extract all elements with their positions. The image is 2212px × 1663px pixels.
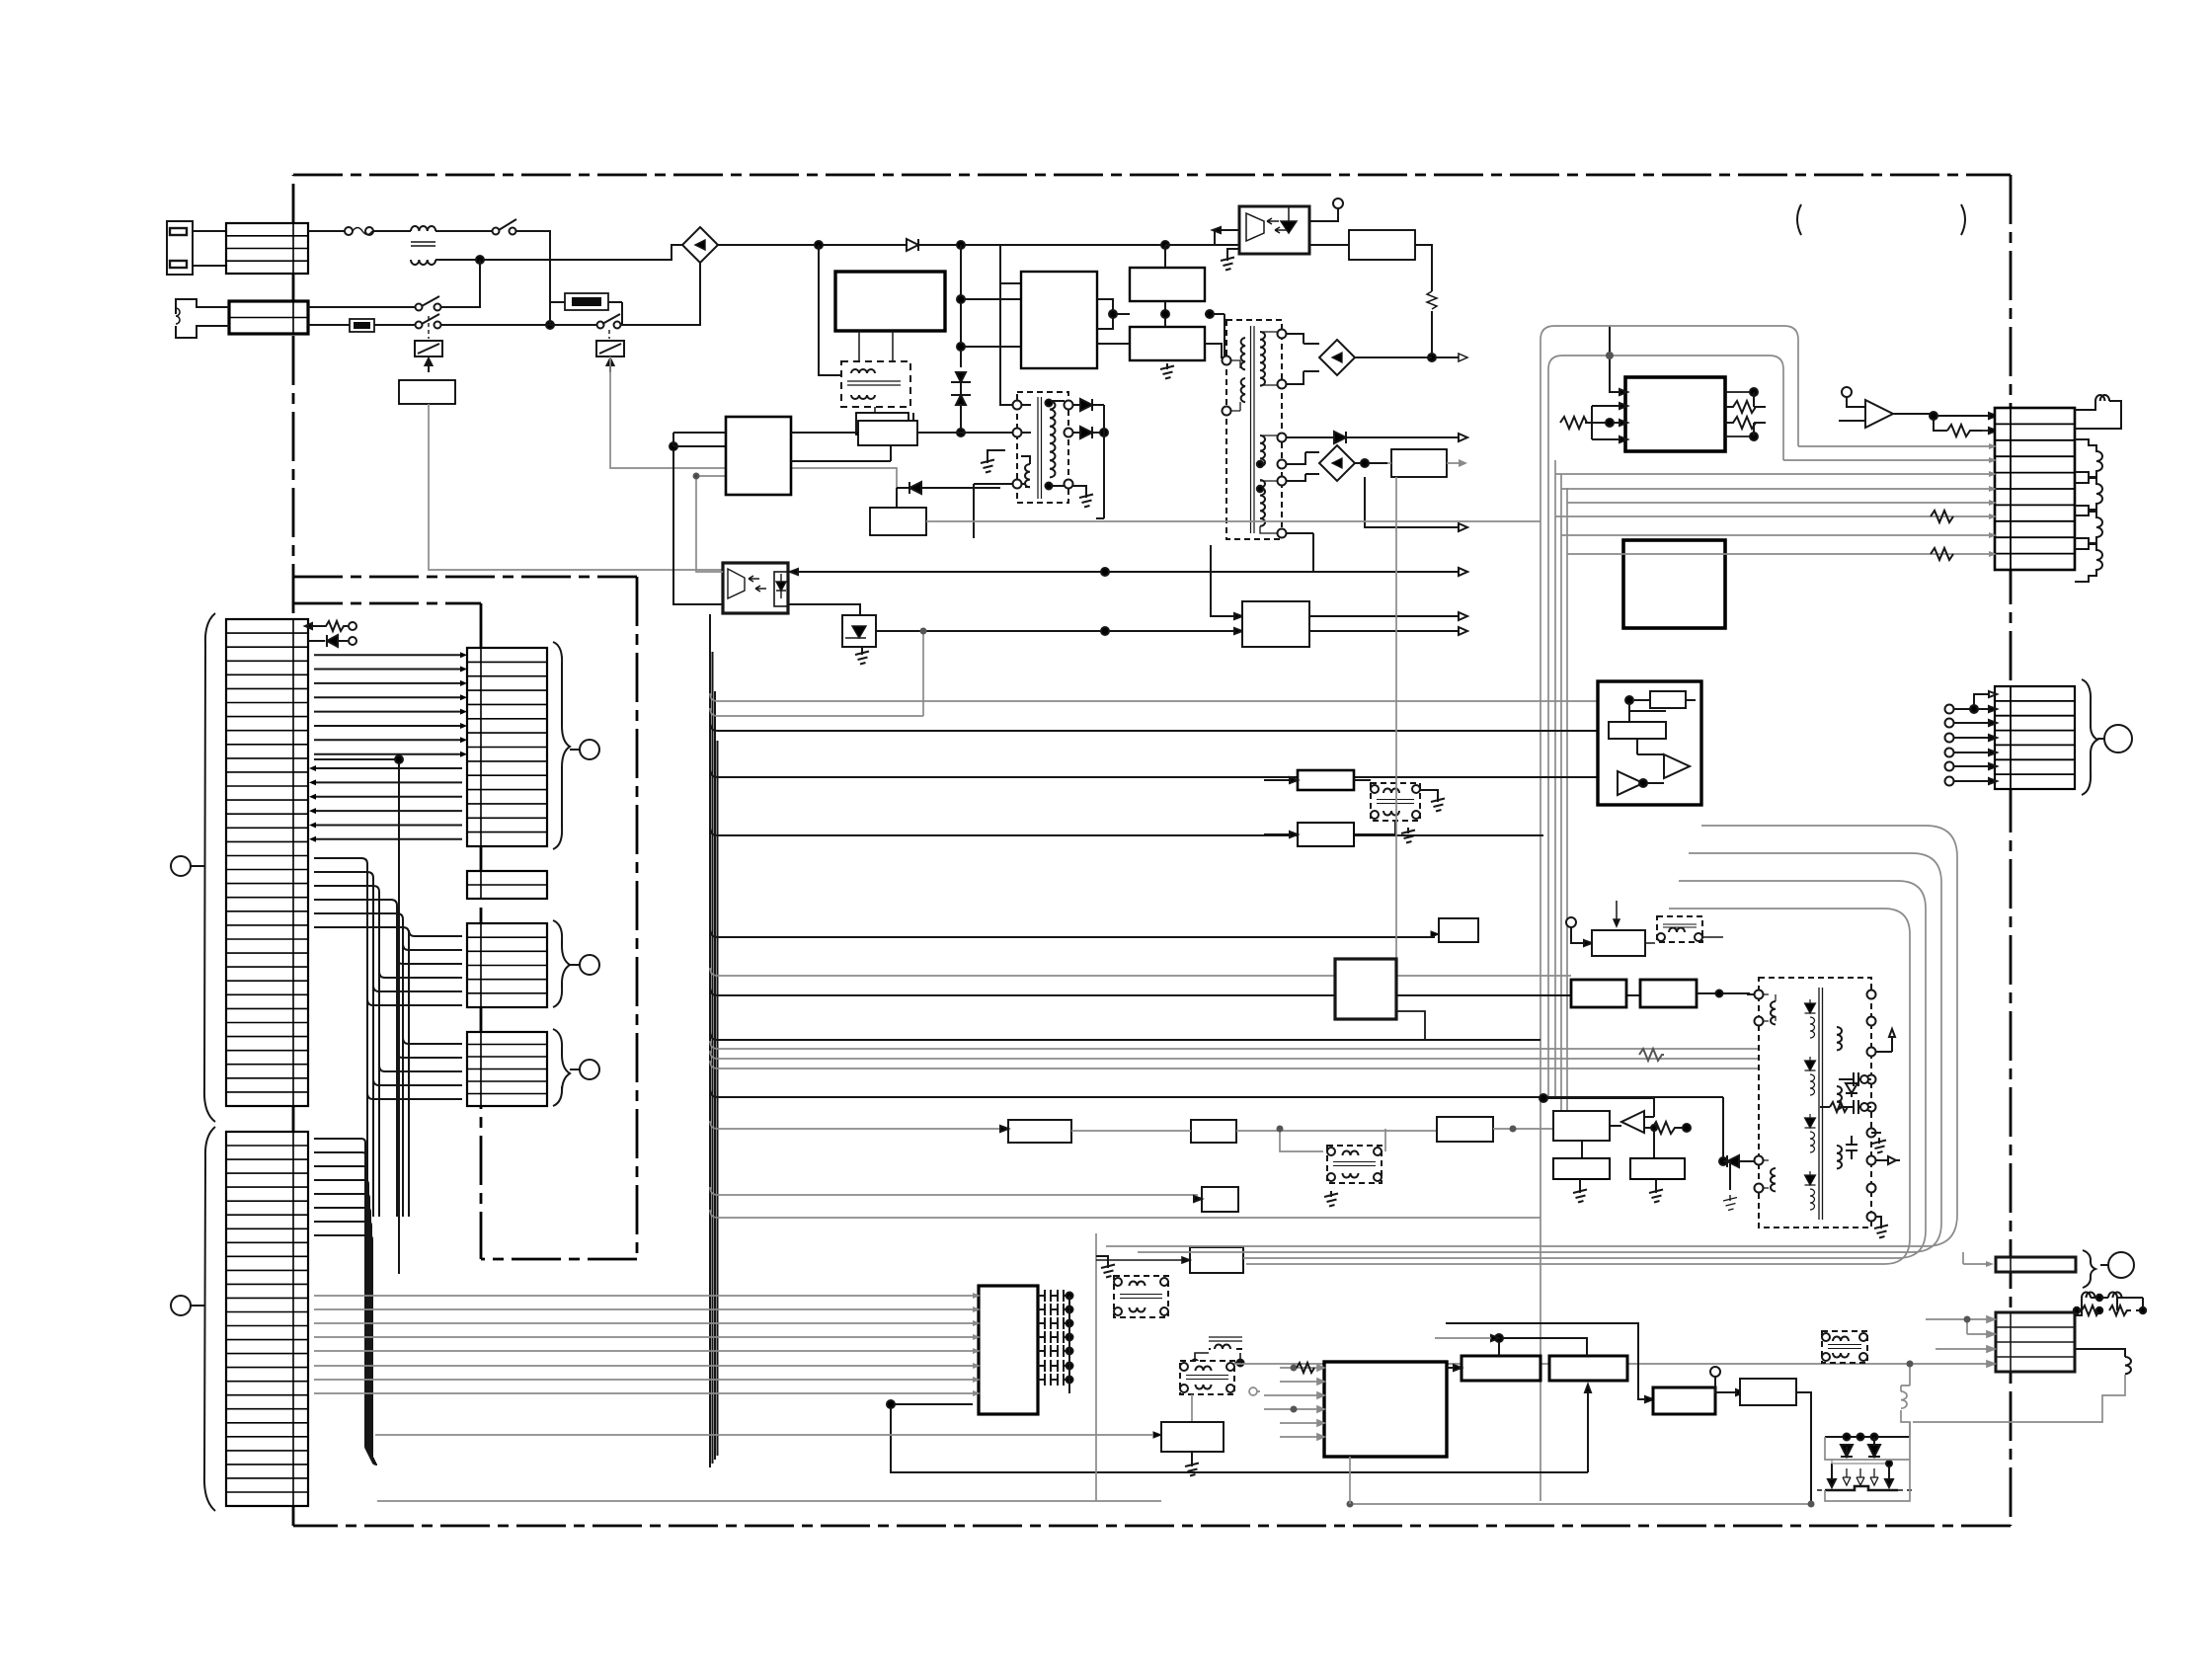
IC PWM controller U10	[835, 272, 945, 331]
wire AC neutral	[476, 245, 684, 329]
connector CN4b	[467, 1032, 547, 1106]
circle term R	[1710, 1367, 1744, 1395]
rect H2	[1640, 980, 1697, 1007]
diode Q1	[1846, 1083, 1857, 1097]
switch SW2a relay contacts	[308, 260, 550, 339]
diode D5	[897, 482, 1000, 508]
switch SW2b	[550, 260, 700, 339]
wire U10 left drop	[819, 245, 1021, 375]
rect on y1210	[1194, 1187, 1238, 1212]
diode D1 rail	[907, 239, 918, 251]
connector CN1 lower left	[226, 1132, 308, 1506]
wires U20 inputs	[1585, 326, 1627, 442]
wires G2 G3	[1264, 777, 1395, 837]
rect comp in	[1553, 1111, 1610, 1141]
wires CN1 to CN2	[314, 655, 462, 839]
wire U2 gray in	[696, 476, 726, 572]
circle ref CN-R1	[2100, 1252, 2134, 1278]
rect N	[1153, 1422, 1224, 1452]
rect out E	[1211, 545, 1309, 647]
transformer EMI box under U10	[841, 331, 918, 425]
rect R	[1740, 1379, 1811, 1504]
arrow out y579	[1313, 545, 1467, 576]
connector CN4a	[467, 923, 547, 1007]
frame sub-board right x645	[636, 577, 639, 1259]
wire y1523	[1347, 1457, 1815, 1508]
arrows T3	[1875, 1029, 1900, 1164]
wires U21 out	[1725, 506, 1817, 602]
switch SW1	[493, 219, 551, 325]
diode D3	[1072, 427, 1108, 438]
circle term U1	[1213, 198, 1343, 246]
IC comparator U30	[1598, 681, 1701, 805]
optocoupler U2	[723, 563, 788, 613]
RIGHT DRIVERS	[1540, 322, 2132, 1501]
chain box K3	[1437, 1117, 1553, 1142]
wire rail to block	[1000, 245, 1280, 283]
rect filter F	[858, 421, 917, 445]
circle ref CN2	[570, 740, 599, 759]
frame main board left border	[292, 175, 295, 1526]
ground EMI B	[1324, 1191, 1338, 1207]
relay driver box	[399, 380, 455, 404]
resistor U60 in	[1297, 1363, 1314, 1373]
trans plain D	[1192, 1337, 1244, 1367]
common mode choke L1	[409, 226, 493, 265]
relay RY2	[596, 341, 624, 372]
bus horizontals gray	[710, 693, 1868, 1218]
connector CN-R1	[1996, 1257, 2076, 1272]
rect relay drive G	[870, 508, 926, 535]
IC motor driver U20	[1625, 377, 1725, 451]
ground TVS	[855, 649, 869, 665]
coil CN-R2 lower	[2075, 1349, 2131, 1437]
frame main board top border	[293, 174, 2011, 177]
wire low tap out	[1287, 467, 1459, 572]
AC INPUT	[308, 198, 1467, 570]
frame main board bottom border	[293, 1525, 2011, 1528]
motor winding W2	[2075, 439, 2102, 483]
reg sub box	[856, 413, 908, 435]
relay RY1	[415, 341, 442, 372]
zener pair	[951, 372, 971, 436]
rect A2a	[1553, 1158, 1610, 1179]
wire U12 pins	[673, 413, 913, 476]
wire relay drive 2	[610, 356, 897, 508]
grounds A2	[1573, 1179, 1663, 1203]
coils CN-R2 right	[2074, 1293, 2146, 1316]
gray feedback bus	[1540, 326, 1798, 1501]
wire U2 out top	[788, 568, 1467, 576]
connector CN top2	[229, 301, 308, 334]
resistor on CN1 pin1	[305, 621, 356, 631]
connector CN2 middle column	[467, 648, 547, 846]
wire relay drive 1	[429, 404, 788, 570]
rect on y949	[1431, 918, 1478, 942]
rect M1	[1592, 901, 1645, 956]
ground T3 a	[1872, 1138, 1886, 1153]
frame inner top y611	[293, 602, 481, 605]
EMI box F	[1822, 1331, 1867, 1363]
wire U2 in	[670, 442, 726, 604]
CENTER BUS	[710, 614, 1868, 1467]
opamp A2	[1540, 1094, 1691, 1158]
rect Q	[1653, 1387, 1715, 1414]
frame main board right border	[2010, 175, 2013, 1526]
bridge BR2	[1303, 340, 1432, 375]
bridge BR3	[1305, 445, 1387, 481]
caps U50	[1038, 1290, 1073, 1393]
rect reg D	[1391, 449, 1447, 477]
op-amp A1	[1839, 387, 1934, 428]
step small box	[1097, 299, 1113, 329]
frame inner right x487	[480, 603, 483, 1259]
rect P1	[1461, 1356, 1540, 1381]
wire U2 out bottom	[788, 604, 860, 623]
diode D4	[1329, 432, 1467, 443]
circle ref CN7	[2097, 725, 2132, 752]
chain box K1	[1000, 1120, 1071, 1143]
res box R10	[1349, 230, 1415, 260]
wires CN-R2 in	[1867, 1316, 1995, 1368]
connector CN7	[1995, 686, 2075, 789]
resistors U20 out	[1725, 388, 1766, 440]
bridge rectifier BR1	[682, 227, 718, 263]
bracket for CN1 upper	[204, 613, 215, 1122]
wire HV rail	[718, 241, 1169, 249]
IC switcher block U11	[1021, 272, 1097, 368]
wires U60 inputs	[1264, 1365, 1324, 1441]
wire G right	[926, 520, 1540, 522]
connector CN1 upper left	[226, 619, 308, 1106]
ground N	[1185, 1452, 1199, 1476]
bus corners right	[1106, 826, 1957, 1264]
wire CN-R1 feed	[1963, 1252, 1994, 1267]
LEFT CONNECTORS	[167, 221, 599, 1511]
circle term M	[1566, 917, 1592, 946]
rect block A	[1130, 268, 1205, 301]
wire F out	[917, 432, 974, 434]
wires T3 left	[1723, 994, 1755, 1211]
connector AC inlet plug	[167, 221, 226, 275]
wire D2D3 join	[1096, 405, 1104, 518]
wires U50 inputs	[314, 1296, 973, 1393]
circle ref CN4b	[570, 1060, 599, 1079]
fuse F3 bypass	[550, 293, 622, 325]
brace CN2	[553, 642, 570, 849]
ground EMI A	[1420, 790, 1445, 812]
rect G2	[1298, 770, 1354, 790]
IC motor driver U21	[1623, 540, 1725, 628]
connector CN-R2	[1996, 1312, 2075, 1372]
EMI filter box B	[1327, 1146, 1382, 1183]
arrow out y624	[1309, 612, 1467, 620]
wires CN7	[1945, 691, 1998, 786]
rect block B	[1130, 327, 1205, 360]
connector CN3	[467, 871, 547, 899]
diode D8	[1719, 1097, 1747, 1167]
bus horizontals black	[710, 723, 1723, 1097]
inductor fixture left of CN top2	[176, 299, 229, 338]
resistor rows	[1931, 511, 1953, 560]
circle ref CN4a	[570, 955, 599, 975]
PSU CORE	[670, 283, 1540, 665]
circle ref CN1 lower	[171, 1296, 204, 1315]
optocoupler U1	[1239, 205, 1309, 254]
wire long center vertical	[314, 755, 403, 1274]
wire U50 bottom right	[887, 1385, 1591, 1472]
frame sub-board bottom y1275	[481, 1258, 637, 1261]
wires P1 P2	[1435, 1323, 1653, 1402]
brace CN4a	[553, 920, 570, 1007]
frame sub-board top y584	[293, 576, 637, 579]
EMI box E	[1180, 1361, 1234, 1394]
transformer T3 dashed	[1755, 978, 1876, 1227]
bracket for CN1 lower	[204, 1127, 215, 1511]
ground block B	[1160, 363, 1174, 379]
caps T3	[1846, 1133, 1885, 1159]
chain box K2	[1071, 1120, 1437, 1143]
connector CN top1	[226, 223, 308, 274]
motor winding W3	[2075, 472, 2102, 515]
diode on CN1 pin2	[308, 635, 356, 647]
wire y1520	[377, 1500, 1096, 1502]
wire y1453	[375, 1434, 1153, 1436]
EMI filter box A	[1371, 783, 1420, 821]
connector CN-M	[1995, 408, 2075, 570]
brace CN4b	[553, 1029, 570, 1106]
diode D2	[1072, 399, 1104, 411]
wire bundle center vertical	[314, 858, 409, 1217]
coil feed DA	[1901, 1361, 1914, 1438]
resistor opamp fb	[1947, 425, 1997, 436]
circle ref CN1 upper	[171, 856, 204, 876]
rect P2	[1549, 1356, 1627, 1381]
gray feedback horizontals	[1540, 322, 1817, 336]
FRAMES	[293, 175, 2011, 1526]
wire coil down	[1913, 1375, 2125, 1422]
wire spine vertical	[710, 614, 718, 1467]
ground T1 left	[981, 450, 1005, 473]
wires EMI E	[1192, 1364, 1867, 1422]
wires blocks AB	[1097, 245, 1238, 363]
EMI box C	[1114, 1276, 1168, 1317]
rect H1	[1571, 980, 1626, 1007]
ground U1	[1221, 249, 1239, 271]
BOTTOM SECTION	[314, 477, 1867, 1508]
IC main B U60	[1324, 1362, 1447, 1457]
comparator internals	[1609, 691, 1696, 795]
wire reg D out	[1387, 459, 1467, 467]
fuse F2 black body	[350, 319, 374, 332]
wire T2 secondary taps	[1287, 334, 1329, 545]
IC housekeeping U12	[726, 417, 791, 495]
IC main A U50	[979, 1286, 1038, 1414]
wires EMI B	[1277, 1126, 1386, 1152]
cap out right	[1875, 1072, 1926, 1107]
ground T3 b	[1874, 1217, 1888, 1238]
rect G3	[1298, 823, 1354, 846]
motor winding W1	[2075, 395, 2121, 429]
motor winding W5	[2075, 538, 2102, 582]
brace CN7	[2082, 679, 2097, 795]
ground x1120	[1096, 1256, 1115, 1278]
resistor Q1 gate	[1820, 1102, 1848, 1112]
label parens top right	[1797, 204, 1801, 235]
arrow out y534	[1365, 477, 1467, 531]
wire H2 out	[1626, 990, 1754, 1016]
resistor y1068	[1639, 1049, 1664, 1061]
brace CN-R1	[2083, 1250, 2095, 1288]
transformer T2 main dashed	[1223, 320, 1287, 539]
wire y725 up to TVS line	[920, 628, 927, 717]
arrow out y639	[1309, 627, 1467, 635]
gray box around DA	[1825, 1422, 1910, 1501]
fuse F1	[308, 227, 411, 235]
wire bundle CN1b down	[314, 1139, 377, 1465]
IC regulator U40	[1335, 477, 1425, 1041]
transformer T1 dashed	[1013, 392, 1073, 503]
wires CN-M inputs	[1555, 446, 1989, 554]
wire R10 to resistor	[1309, 245, 1467, 361]
motor winding W4	[2075, 506, 2102, 549]
EMI box M2	[1645, 916, 1723, 943]
gnd T1 right	[1072, 486, 1093, 508]
wire T1 primary feeds	[961, 283, 1053, 538]
ground EMI A2	[1401, 828, 1415, 843]
wire opamp out	[1930, 412, 1997, 431]
gray drop x1110	[1096, 1233, 1161, 1501]
rect long L	[1096, 1247, 1243, 1273]
zener box TVS	[842, 615, 1242, 654]
diode array DA	[1817, 1434, 1912, 1491]
rect A2b	[1630, 1158, 1685, 1179]
MOSFET Q1	[1839, 1072, 1871, 1114]
resistor U20 in	[1560, 417, 1587, 429]
